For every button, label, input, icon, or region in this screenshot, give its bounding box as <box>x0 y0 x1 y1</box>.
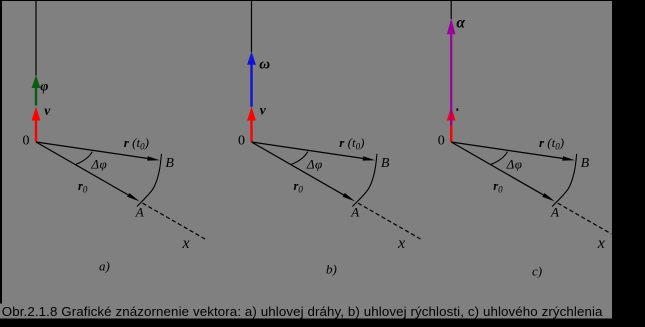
dashed x-axis extension b <box>358 203 421 239</box>
arrowhead r(t0) c <box>562 156 575 160</box>
svg-text:Obr.2.1.8 Grafické znázornenie: Obr.2.1.8 Grafické znázornenie vektora: … <box>2 304 603 319</box>
svg-text:B: B <box>581 156 590 171</box>
wire: position vector r(t0) line a <box>36 142 149 159</box>
svg-text:A: A <box>135 205 144 220</box>
axis line c <box>450 1 452 19</box>
dashed x-axis extension c <box>558 203 612 234</box>
wire: initial vector r0 line a <box>36 142 130 196</box>
svg-text:Δφ: Δφ <box>506 156 523 171</box>
arrowhead r(t0) a <box>147 156 160 160</box>
angle arc delta-phi c <box>491 152 508 165</box>
angle arc delta-phi a <box>76 152 93 165</box>
svg-text:α: α <box>456 15 465 32</box>
small dot label c <box>457 108 459 111</box>
vector v arrow shaft b <box>250 120 252 142</box>
svg-text:0: 0 <box>438 134 445 149</box>
arrowhead r(t0) b <box>363 156 376 160</box>
wire: position vector r(t0) line c <box>451 142 564 159</box>
vector omega (angular velocity) arrow shaft <box>250 64 252 107</box>
vector v arrowhead b <box>247 107 256 121</box>
gray caption-left sliver <box>0 304 2 319</box>
svg-text:A: A <box>550 205 559 220</box>
svg-text:0: 0 <box>23 134 30 149</box>
svg-text:Δφ: Δφ <box>90 156 107 171</box>
svg-text:v: v <box>260 103 267 118</box>
svg-text:v: v <box>44 103 51 118</box>
vector phi (angular path) arrow shaft <box>35 87 37 106</box>
vector phi arrowhead <box>32 75 41 88</box>
vector v arrowhead c <box>447 107 456 121</box>
svg-text:x: x <box>597 235 605 252</box>
svg-text:a): a) <box>99 259 110 274</box>
vector v arrowhead a <box>32 107 41 121</box>
svg-text:x: x <box>397 235 405 252</box>
arc from B to A c <box>552 154 577 207</box>
vector alpha arrowhead <box>447 19 456 35</box>
svg-text:b): b) <box>326 262 337 277</box>
svg-text:A: A <box>350 205 359 220</box>
svg-text:x: x <box>182 235 190 252</box>
svg-text:Δφ: Δφ <box>306 156 323 171</box>
svg-text:B: B <box>165 156 174 171</box>
axis line b <box>251 1 253 52</box>
svg-text:φ: φ <box>40 79 48 94</box>
vector alpha (angular acceleration) arrow shaft <box>450 33 452 126</box>
arrowhead r0 c <box>542 193 554 201</box>
svg-text:0: 0 <box>238 134 245 149</box>
arrowhead r0 a <box>127 193 139 201</box>
svg-text:c): c) <box>532 264 542 279</box>
arrowhead r0 b <box>343 193 355 201</box>
wire: initial vector r0 line b <box>252 142 346 196</box>
svg-text:ω: ω <box>259 56 270 72</box>
dashed x-axis extension a <box>143 203 206 239</box>
svg-text:B: B <box>381 156 390 171</box>
wire: position vector r(t0) line b <box>252 142 365 159</box>
svg-text:r (t0): r (t0) <box>124 135 149 152</box>
svg-text:r (t0): r (t0) <box>539 135 564 152</box>
angle arc delta-phi b <box>291 152 308 165</box>
svg-text:r (t0): r (t0) <box>339 135 364 152</box>
vector omega arrowhead <box>247 52 256 65</box>
vector v arrow shaft c <box>450 120 452 142</box>
arc from B to A b <box>352 154 377 207</box>
vector v arrow shaft a <box>35 120 37 142</box>
arc from B to A a <box>137 154 162 207</box>
axis line a <box>35 1 37 76</box>
wire: initial vector r0 line c <box>451 142 545 196</box>
